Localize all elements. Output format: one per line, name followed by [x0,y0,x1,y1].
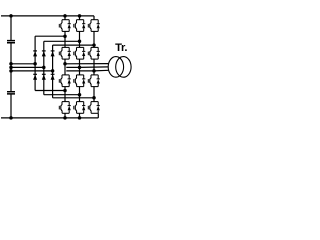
DC- bottom bus [1,117,98,119]
clamp column 1: wire [34,36,36,90]
capacitor C2 [7,92,15,94]
IGBT module S2b: transistor with antiparallel diode [74,47,86,59]
clamp diode D3u [51,50,55,52]
upper clamp link to leg 1 [35,35,65,37]
phase tap leg 3 [92,69,96,73]
IGBT module S2a: transistor with antiparallel diode [59,47,71,59]
IGBT module S4b: transistor with antiparallel diode [74,102,86,114]
leg 3 lower corner wire [97,113,99,118]
phase tap leg 1 [63,62,67,66]
IGBT module S4c: transistor with antiparallel diode [88,102,100,114]
IGBT module S1b: transistor with antiparallel diode [74,20,86,32]
IGBT module S4a: transistor with antiparallel diode [59,102,71,114]
IGBT module S3c: transistor with antiparallel diode [88,75,100,87]
transformer Tr. secondary winding [116,57,131,78]
clamp column 2: wire [43,41,45,94]
phase tap leg 2 [78,66,82,70]
lower clamp link to leg 3 [53,97,94,99]
neutral rail B (DC midpoint to clamp column 2) [11,66,44,68]
neutral rail A (DC midpoint to clamp column 1) [11,63,35,65]
IGBT module S1c: transistor with antiparallel diode [88,20,100,32]
clamp diode D2l [42,73,46,75]
leg 1 vertical wires [64,16,66,102]
junction: cap string to bottom bus [9,116,13,120]
DC+ top bus [1,15,94,17]
leg 2 vertical wires [79,16,81,102]
leg 3 vertical wires [93,16,95,102]
upper clamp link to leg 2 [44,40,80,42]
lower clamp link to leg 1 [35,90,65,92]
clamp column 3: wire [52,45,54,98]
clamp diode D3l [51,73,55,75]
IGBT module S2c: transistor with antiparallel diode [88,47,100,59]
phase line 1 to transformer [65,63,108,65]
clamp diode D1l [33,73,37,75]
clamp diode D1u [33,50,37,52]
IGBT module S1a: transistor with antiparallel diode [59,20,71,32]
clamp diode D2u [42,50,46,52]
neutral rail C (DC midpoint to clamp column 3) [11,70,53,72]
DC-link capacitor string wire [10,16,12,118]
junction: cap string to top bus [9,14,13,18]
svg-text:Tr.: Tr. [115,42,127,54]
lower clamp link to leg 2 [44,94,80,96]
phase line 2 to transformer [66,66,108,69]
IGBT module S3b: transistor with antiparallel diode [74,75,86,87]
transformer Tr. primary winding [108,57,123,78]
capacitor C1 [7,41,15,43]
IGBT module S3a: transistor with antiparallel diode [59,75,71,87]
upper clamp link to leg 3 [53,44,94,46]
phase line 3 to transformer [66,69,108,72]
